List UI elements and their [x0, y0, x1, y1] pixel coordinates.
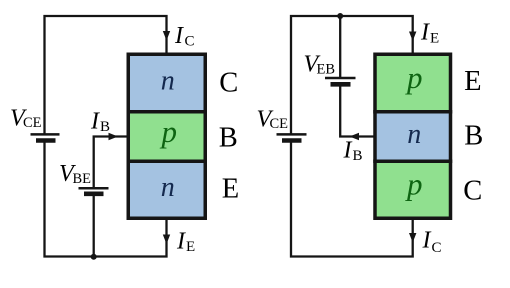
svg-text:C: C — [185, 34, 195, 50]
svg-text:I: I — [176, 229, 186, 255]
svg-text:C: C — [463, 176, 482, 207]
base region n (B) — [375, 112, 451, 162]
svg-text:p: p — [405, 60, 423, 95]
node: junction dot top rail — [337, 13, 343, 19]
svg-text:B: B — [100, 119, 110, 135]
svg-text:CE: CE — [23, 115, 42, 131]
arrow I_C (down) — [163, 31, 170, 41]
svg-text:C: C — [432, 240, 442, 256]
wire: V_CE bottom to bottom rail — [291, 142, 413, 257]
wire: V_EB bottom to base with corner — [340, 86, 374, 137]
emitter region n (E) — [128, 161, 205, 218]
svg-text:E: E — [186, 239, 195, 255]
collector region p (C) — [375, 161, 451, 218]
svg-text:EB: EB — [317, 62, 336, 78]
arrow I_B (right) — [109, 133, 119, 140]
svg-text:I: I — [90, 109, 100, 135]
svg-text:B: B — [219, 122, 238, 153]
battery V_CE (left) : thick plate — [36, 138, 56, 143]
svg-text:B: B — [353, 148, 363, 164]
svg-text:p: p — [160, 114, 178, 149]
svg-text:I: I — [420, 20, 430, 46]
wire: V_EB branch from top rail to battery — [339, 16, 341, 77]
svg-text:p: p — [405, 167, 423, 202]
base region p (B) — [128, 112, 205, 162]
arrow I_E (down) — [163, 235, 170, 245]
battery V_EB : thick plate — [331, 82, 351, 87]
wire: V_BE branch upper (battery to base with corner) — [94, 137, 127, 188]
svg-text:B: B — [464, 120, 483, 151]
svg-text:E: E — [430, 31, 439, 47]
arrow I_B (left) — [350, 133, 360, 140]
svg-text:I: I — [343, 138, 353, 164]
battery V_BE : thick plate — [84, 192, 104, 197]
wire: top loop from V_CE to emitter — [291, 16, 413, 134]
wire: V_BE bottom to bottom rail — [93, 196, 95, 258]
svg-text:E: E — [222, 173, 239, 204]
svg-text:I: I — [174, 23, 184, 49]
collector region n (C) — [128, 54, 205, 112]
battery V_EB : thin plate — [325, 77, 356, 80]
battery V_CE (left) : thin plate — [31, 133, 60, 136]
emitter region p (E) — [375, 54, 451, 112]
svg-text:C: C — [219, 67, 238, 98]
battery V_CE (right) : thin plate — [277, 133, 307, 136]
svg-text:CE: CE — [270, 116, 289, 132]
arrow I_C (down) — [409, 233, 416, 243]
node: junction dot bottom rail — [91, 254, 97, 260]
wire: top loop from V_CE to collector — [45, 16, 167, 134]
arrow I_E (down) — [409, 32, 416, 42]
svg-text:n: n — [407, 119, 421, 150]
svg-text:BE: BE — [73, 171, 92, 187]
battery V_CE (right) : thick plate — [282, 138, 302, 143]
svg-text:n: n — [161, 65, 175, 96]
svg-text:E: E — [464, 66, 481, 97]
battery V_BE : thin plate — [79, 187, 109, 190]
svg-text:n: n — [161, 172, 175, 203]
svg-text:I: I — [422, 228, 432, 254]
wire: V_CE bottom to bottom rail — [45, 142, 167, 257]
